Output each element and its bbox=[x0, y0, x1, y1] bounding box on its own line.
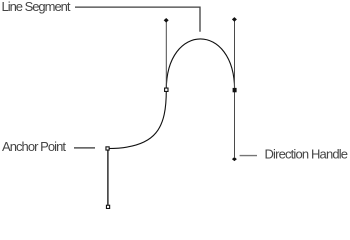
top direction point (diamond) bbox=[232, 17, 237, 22]
straight line segment of the path (A down to endpoint D) bbox=[107, 150, 109, 205]
leader line for Line Segment label bbox=[75, 7, 200, 32]
svg-text:Direction Handle: Direction Handle bbox=[265, 146, 349, 161]
path endpoint D (hollow square) bbox=[106, 205, 109, 208]
bottom direction point (diamond) bbox=[232, 157, 237, 161]
svg-text:Anchor Point: Anchor Point bbox=[2, 139, 66, 154]
anchor point C (selected, filled square) bbox=[233, 88, 237, 92]
left direction handle line bbox=[165, 21, 167, 88]
leader dash for Direction Handle label bbox=[240, 155, 257, 157]
leader dash for Anchor Point label bbox=[74, 147, 95, 149]
curve segment (anchor A to anchor B to anchor C) bbox=[108, 39, 235, 149]
svg-text:Line Segment: Line Segment bbox=[2, 0, 71, 14]
right direction handle line bbox=[234, 21, 236, 158]
left direction point (diamond) bbox=[164, 18, 169, 23]
anchor point A (hollow square) bbox=[106, 147, 109, 150]
anchor point B (hollow square on curve) bbox=[165, 88, 168, 91]
